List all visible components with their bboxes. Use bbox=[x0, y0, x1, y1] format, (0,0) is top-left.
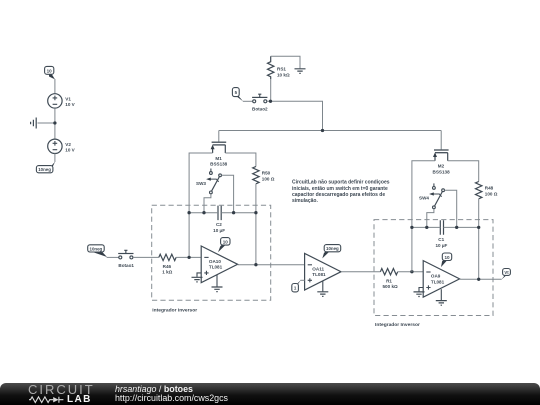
node junction (R1 / right feedback rail) bbox=[410, 270, 413, 273]
wire (R50 bottom rail) bbox=[255, 184, 257, 265]
ground (OA9 non-inverting input) bbox=[414, 288, 425, 297]
svg-text:Integrador Inversor: Integrador Inversor bbox=[375, 322, 420, 328]
resistor RS1 10 kOhm bbox=[268, 56, 290, 79]
ground (OA9 V- supply) bbox=[436, 289, 447, 305]
wire (C1 net) bbox=[412, 226, 479, 228]
wire (C2 net) bbox=[189, 212, 256, 214]
svg-text:V2: V2 bbox=[65, 142, 71, 147]
wire (flag 5 to Botao2) bbox=[243, 100, 253, 102]
svg-text:C1: C1 bbox=[438, 237, 444, 242]
svg-text:BSS138: BSS138 bbox=[210, 162, 228, 167]
resistor R48 100 Ohm bbox=[476, 182, 498, 199]
svg-text:10: 10 bbox=[444, 255, 450, 260]
node junction (OA10 output / R50 feedback) bbox=[254, 263, 257, 266]
svg-text:OA10: OA10 bbox=[209, 259, 221, 264]
node flag 10neg (Botao1 input) bbox=[88, 245, 107, 257]
footer bar bbox=[0, 383, 540, 405]
wire (OA11 + input stub) bbox=[300, 279, 304, 281]
node junction (C2 right / R50) bbox=[254, 211, 257, 214]
ground (left, rotated) bbox=[31, 118, 37, 129]
svg-text:iniciais, então um switch em t: iniciais, então um switch em t=0 garante bbox=[292, 186, 388, 192]
svg-text:Integrador Inversor: Integrador Inversor bbox=[152, 308, 197, 314]
wire (M2 drain lead + R48 top) bbox=[448, 161, 479, 182]
wire (R1 to OA9 inverting input) bbox=[398, 271, 424, 273]
svg-text:500 kΩ: 500 kΩ bbox=[383, 284, 398, 289]
node flag 10 (OA9 V+) bbox=[441, 253, 452, 267]
resistor R1 500 kOhm bbox=[380, 269, 398, 290]
svg-text:10neg: 10neg bbox=[90, 246, 103, 251]
svg-text:Vt: Vt bbox=[504, 270, 509, 275]
wire (Botao2 to gate net) bbox=[267, 101, 323, 130]
svg-text:TL081: TL081 bbox=[431, 279, 445, 284]
wire (R46 to OA10 inverting input) bbox=[176, 256, 201, 258]
transistor M2 BSS138 bbox=[433, 150, 451, 174]
ground (RS1) bbox=[295, 69, 306, 74]
wire (M2 source lead + left rail) bbox=[412, 161, 435, 272]
svg-text:TL081: TL081 bbox=[209, 265, 223, 270]
capacitor C1 10 uF bbox=[435, 220, 447, 248]
svg-text:SW4: SW4 bbox=[419, 196, 429, 201]
transistor M1 BSS138 bbox=[210, 142, 228, 166]
wire (ground stub) bbox=[38, 122, 55, 124]
node junction (OA9 output / R48 feedback) bbox=[477, 278, 480, 281]
svg-text:10 kΩ: 10 kΩ bbox=[277, 73, 290, 78]
wire (R48 bottom rail) bbox=[478, 199, 480, 279]
svg-text:V1: V1 bbox=[65, 97, 71, 102]
node junction (C1 right / SW4 throw) bbox=[455, 226, 458, 229]
resistor R50 100 Ohm bbox=[253, 167, 275, 184]
node junction (C2 left / rail) bbox=[187, 211, 190, 214]
svg-text:R48: R48 bbox=[485, 185, 494, 190]
voltage source V1 10 V bbox=[48, 94, 76, 108]
svg-text:OA9: OA9 bbox=[431, 274, 441, 279]
svg-text:10 µF: 10 µF bbox=[213, 228, 225, 233]
wire (SW3 throw to C2 right node) bbox=[222, 175, 234, 212]
wire (OA11 output to R1) bbox=[341, 271, 380, 273]
op-amp OA9 TL081 bbox=[423, 261, 459, 298]
node junction (SW4 common) bbox=[425, 226, 428, 229]
svg-text:M2: M2 bbox=[438, 164, 445, 169]
wire (V1 to V2 with ground tap) bbox=[54, 108, 56, 139]
pushbutton Botao1 bbox=[118, 250, 134, 267]
wire (top gate wire M1 to M2) bbox=[219, 130, 441, 132]
node flag 10neg (bottom left) bbox=[36, 162, 55, 173]
svg-text:TL081: TL081 bbox=[312, 272, 326, 277]
node junction (SW3 common) bbox=[202, 211, 205, 214]
ground (OA11 V- supply) bbox=[317, 281, 328, 297]
node flag 1 (OA11 non-inverting input) bbox=[292, 280, 301, 292]
capacitor C2 10 uF bbox=[213, 206, 225, 233]
wire (V2 bottom) bbox=[54, 154, 56, 162]
node junction (C2 right / SW3 throw) bbox=[232, 211, 235, 214]
svg-text:100 Ω: 100 Ω bbox=[485, 191, 498, 196]
svg-text:10neg: 10neg bbox=[326, 246, 339, 251]
node flag 10neg (OA11 V+) bbox=[322, 245, 340, 259]
wire (flag to Botao1) bbox=[107, 256, 119, 258]
switch SW4 bbox=[419, 183, 444, 208]
svg-text:R46: R46 bbox=[163, 264, 172, 269]
svg-text:Botao2: Botao2 bbox=[252, 107, 268, 112]
ground (OA10 V- supply) bbox=[212, 275, 223, 292]
wire (OA9 output) bbox=[460, 278, 502, 280]
svg-text:1 kΩ: 1 kΩ bbox=[162, 270, 172, 275]
node flag Vt (output) bbox=[501, 269, 510, 280]
svg-text:R50: R50 bbox=[262, 171, 271, 176]
op-amp OA11 TL081 bbox=[305, 253, 341, 290]
wire (M2 gate drop) bbox=[440, 131, 442, 150]
node junction (C1 right / R48) bbox=[477, 226, 480, 229]
svg-text:Botao1: Botao1 bbox=[118, 263, 134, 268]
wire (SW3 common jog) bbox=[204, 194, 211, 213]
svg-text:100 Ω: 100 Ω bbox=[262, 177, 275, 182]
ground (OA10 non-inverting input) bbox=[192, 273, 203, 282]
wire (M1 source lead + left rail) bbox=[189, 153, 213, 257]
svg-text:SW3: SW3 bbox=[196, 181, 206, 186]
svg-text:capacitor descarregado para ef: capacitor descarregado para efeitos de bbox=[292, 192, 385, 198]
wire (SW4 common jog) bbox=[427, 209, 434, 228]
node flag 10 (OA10 V+) bbox=[218, 238, 230, 253]
annotation box (left integrator) bbox=[152, 205, 271, 313]
node junction (C1 left / rail) bbox=[410, 226, 413, 229]
voltage source V2 10 V bbox=[48, 139, 76, 153]
svg-text:10neg: 10neg bbox=[38, 167, 51, 172]
svg-text:10: 10 bbox=[223, 240, 229, 245]
pushbutton Botao2 bbox=[252, 94, 268, 111]
svg-text:OA11: OA11 bbox=[312, 266, 324, 271]
node flag 10 (top left) bbox=[45, 66, 55, 79]
wire (RS1 bottom) bbox=[270, 79, 272, 101]
node junction (RS1/Botao2) bbox=[269, 100, 272, 103]
wire (RS1 top to ground) bbox=[271, 56, 300, 68]
svg-text:10 V: 10 V bbox=[65, 102, 75, 107]
svg-text:simulação.: simulação. bbox=[292, 198, 318, 204]
op-amp OA10 TL081 bbox=[201, 246, 237, 283]
annotation text (CircuitLab note) bbox=[292, 180, 390, 204]
resistor R46 1 kOhm bbox=[159, 254, 176, 274]
svg-text:M1: M1 bbox=[215, 156, 222, 161]
node flag 5 (Botao2 input) bbox=[232, 88, 243, 102]
svg-text:CircuitLab não suporta definir: CircuitLab não suporta definir condiçoes bbox=[292, 180, 390, 186]
node junction (gate wire) bbox=[321, 129, 324, 132]
svg-text:10 µF: 10 µF bbox=[435, 243, 447, 248]
annotation box (right integrator) bbox=[374, 220, 493, 328]
wire (Botao1 to R46) bbox=[133, 256, 159, 258]
svg-text:10: 10 bbox=[47, 69, 53, 74]
svg-text:RS1: RS1 bbox=[277, 67, 286, 72]
svg-text:R1: R1 bbox=[386, 279, 392, 284]
wire (flag 10 to V1) bbox=[54, 79, 56, 94]
svg-text:C2: C2 bbox=[216, 222, 222, 227]
switch SW3 bbox=[196, 169, 221, 194]
svg-text:BSS138: BSS138 bbox=[433, 169, 451, 174]
node junction (V1/V2/ground) bbox=[53, 121, 56, 124]
wire (OA10 output to OA11) bbox=[238, 264, 305, 266]
wire (M1 drain lead + R50 top) bbox=[225, 153, 256, 167]
svg-text:10 V: 10 V bbox=[65, 147, 75, 152]
wire (SW4 throw to C1 right node) bbox=[445, 190, 457, 227]
wire (M1 gate drop) bbox=[218, 131, 220, 142]
node junction (R46 / feedback rail) bbox=[187, 256, 190, 259]
